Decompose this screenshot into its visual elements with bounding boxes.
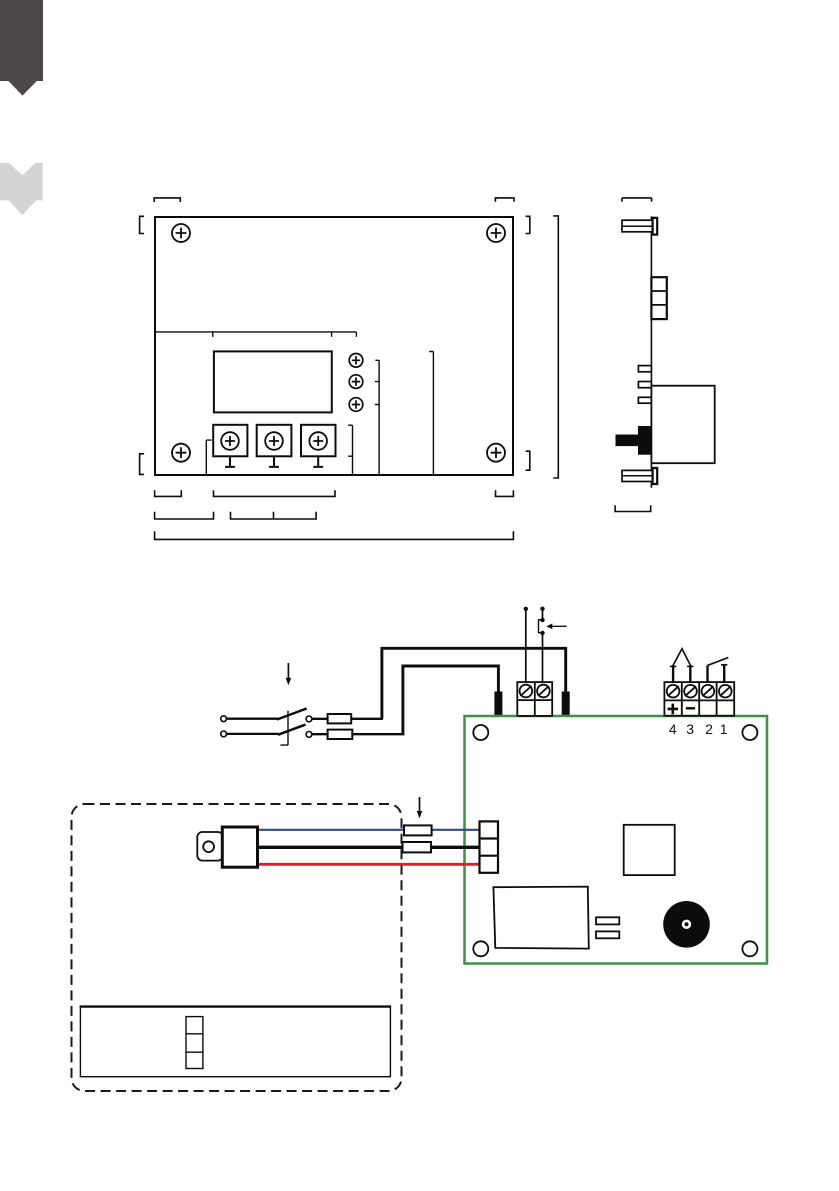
svg-text:4: 4 [669,721,677,737]
svg-text:2: 2 [705,721,713,737]
svg-text:3: 3 [686,721,694,737]
svg-text:1: 1 [720,721,728,737]
